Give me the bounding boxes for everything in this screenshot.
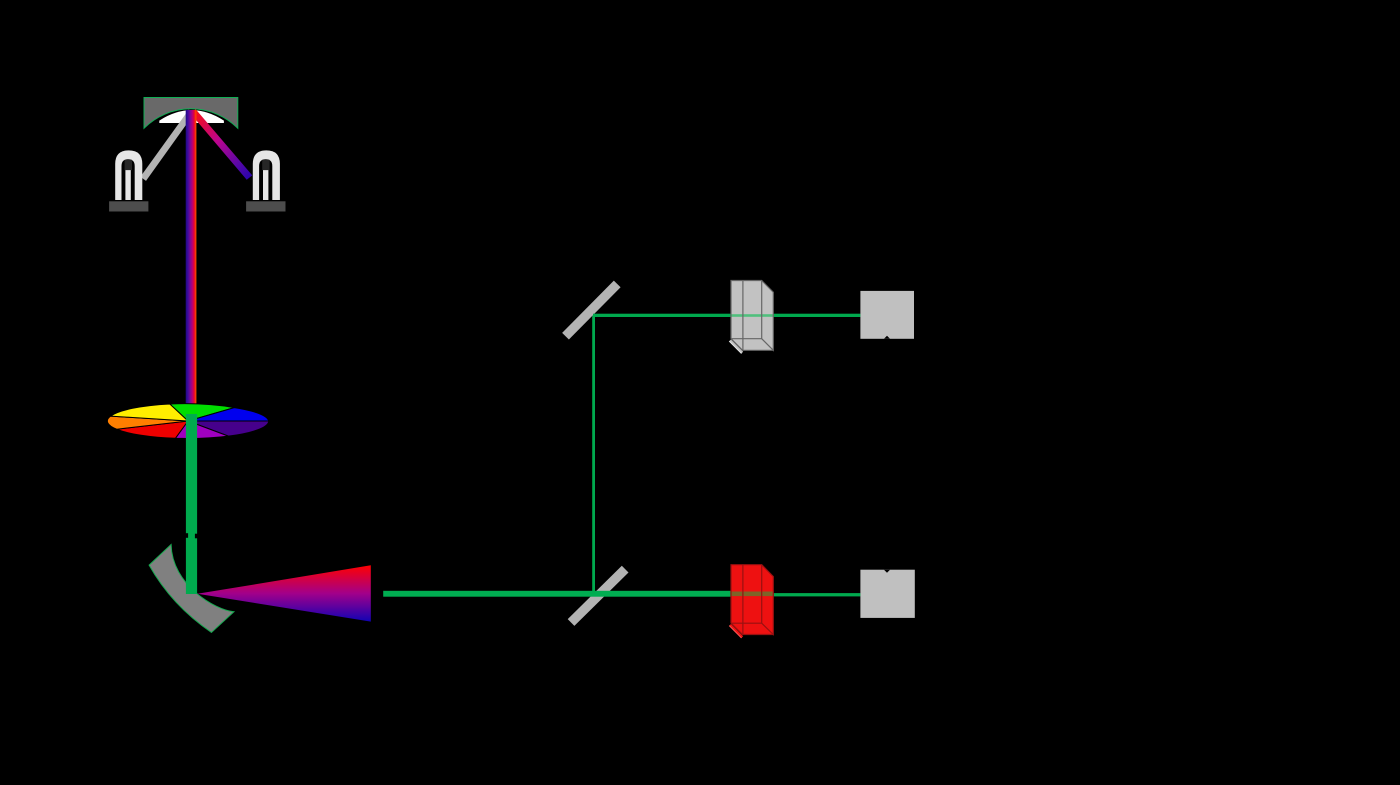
- label remnant mark on D1: [884, 336, 890, 339]
- segment red: [117, 421, 188, 438]
- mirror M1 white reflective face: [159, 110, 224, 123]
- segment indigo: [188, 421, 269, 436]
- lamp L2 base: [246, 201, 285, 211]
- focusing mirror M2 (curved crescent, gray with green outline): [149, 545, 234, 633]
- reference detector D1: [860, 291, 914, 339]
- cuvette lid flap: [730, 625, 742, 637]
- beam: visible lamp to mirror (gray): [140, 110, 194, 181]
- beam: monochromatic green down from filter wheel: [186, 414, 197, 594]
- segment blue: [188, 408, 269, 421]
- reference cuvette (gray translucent box): [729, 281, 773, 354]
- beam: thin green from sample cuvette to sample detector: [772, 593, 860, 596]
- beam splitter BS (diagonal gray plate): [568, 566, 629, 626]
- beam segment seen through sample cuvette (absorbed, olive): [731, 592, 773, 597]
- filter wheel (colored pie segments on ellipse): [107, 404, 268, 439]
- beam: mixed white light down from mirror (blue/violet/red gradient): [186, 110, 197, 404]
- beam: thin green from M3 to reference detector: [593, 314, 860, 317]
- collimating mirror M1 (gray block with concave face, green outline): [144, 98, 238, 129]
- beam segment seen through reference cuvette: [731, 314, 773, 317]
- sample detector D2: [860, 570, 914, 618]
- beam: thick green from prism to sample cuvette: [383, 591, 732, 597]
- beam: thin green up from splitter to mirror M3: [592, 315, 595, 593]
- segment orange: [107, 416, 188, 429]
- mirror M3 (diagonal gray plate, reference branch): [562, 281, 620, 340]
- lamp L1 base: [109, 201, 148, 211]
- segment yellow: [111, 404, 188, 421]
- prism dispersion fan (red->blue): [197, 565, 370, 621]
- segment purple: [175, 421, 228, 439]
- lamp L1 (visible light source, left): bulb: [115, 150, 142, 200]
- sample cuvette (red box): [729, 565, 773, 638]
- label remnant mark on D2: [884, 570, 890, 573]
- beam: UV lamp to mirror (red to violet): [190, 109, 252, 180]
- cuvette lid flap: [730, 340, 742, 352]
- lamp L2 (UV light source, right): bulb: [253, 150, 280, 200]
- segment green: [170, 404, 235, 421]
- slit S1 (black plates over green beam): [185, 533, 189, 538]
